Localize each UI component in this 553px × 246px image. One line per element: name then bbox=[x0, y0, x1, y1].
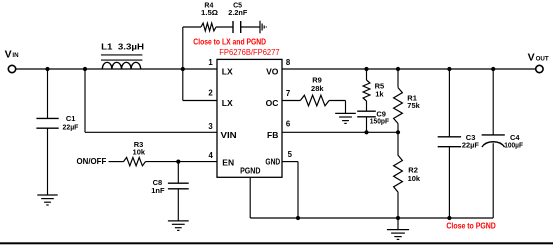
svg-text:VO: VO bbox=[266, 67, 279, 77]
svg-text:2: 2 bbox=[208, 89, 213, 98]
svg-text:PGND: PGND bbox=[240, 165, 260, 175]
svg-text:1nF: 1nF bbox=[151, 186, 165, 195]
svg-text:22µF: 22µF bbox=[63, 122, 79, 131]
svg-text:OUT: OUT bbox=[536, 55, 549, 62]
svg-text:10k: 10k bbox=[408, 174, 421, 183]
svg-text:150pF: 150pF bbox=[370, 117, 390, 126]
svg-text:L1 3.3µH: L1 3.3µH bbox=[101, 42, 144, 52]
svg-text:ON/OFF: ON/OFF bbox=[77, 157, 107, 166]
svg-text:1: 1 bbox=[208, 58, 213, 67]
svg-text:FP6276B/FP6277: FP6276B/FP6277 bbox=[219, 47, 280, 57]
svg-text:C5: C5 bbox=[233, 3, 242, 10]
svg-text:3: 3 bbox=[208, 122, 213, 131]
svg-text:1k: 1k bbox=[375, 90, 384, 99]
svg-text:4: 4 bbox=[209, 151, 214, 160]
svg-text:R4: R4 bbox=[204, 3, 213, 10]
svg-text:1.5Ω: 1.5Ω bbox=[201, 10, 218, 17]
svg-text:Close to LX and PGND: Close to LX and PGND bbox=[193, 37, 266, 46]
svg-text:IN: IN bbox=[12, 52, 19, 59]
svg-text:LX: LX bbox=[222, 67, 233, 77]
svg-text:22µF: 22µF bbox=[462, 141, 479, 150]
svg-text:100µF: 100µF bbox=[504, 141, 523, 150]
svg-text:2.2nF: 2.2nF bbox=[228, 10, 248, 17]
svg-text:OC: OC bbox=[266, 98, 279, 108]
svg-text:7: 7 bbox=[286, 89, 290, 98]
svg-text:8: 8 bbox=[286, 58, 291, 67]
svg-text:6: 6 bbox=[286, 120, 291, 129]
svg-text:FB: FB bbox=[267, 130, 278, 140]
svg-text:75k: 75k bbox=[407, 101, 420, 110]
svg-text:EN: EN bbox=[222, 157, 234, 167]
svg-text:5: 5 bbox=[288, 150, 293, 159]
svg-text:V: V bbox=[528, 52, 535, 64]
svg-text:GND: GND bbox=[265, 157, 280, 167]
svg-text:Close to PGND: Close to PGND bbox=[446, 222, 496, 231]
svg-text:28k: 28k bbox=[311, 84, 324, 93]
svg-text:LX: LX bbox=[222, 98, 233, 108]
svg-text:10k: 10k bbox=[133, 148, 146, 157]
svg-text:VIN: VIN bbox=[221, 130, 237, 140]
svg-text:V: V bbox=[5, 48, 12, 60]
